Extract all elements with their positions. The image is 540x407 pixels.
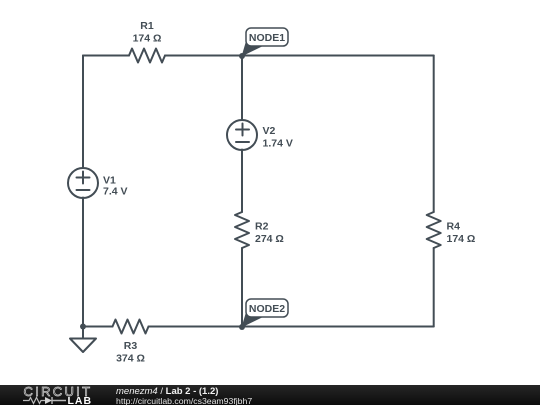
resistor R4: [427, 212, 476, 248]
resistor R3: [113, 320, 149, 365]
node NODE1: [239, 28, 288, 59]
svg-text:NODE1: NODE1: [249, 32, 285, 44]
voltage source V1: [68, 168, 128, 198]
svg-text:1.74 V: 1.74 V: [263, 138, 293, 150]
CircuitLab logo: [24, 384, 104, 399]
logo resistor-diode glyph: [23, 396, 67, 405]
svg-text:R4: R4: [447, 221, 461, 233]
svg-text:R2: R2: [255, 221, 269, 233]
svg-text:274 Ω: 274 Ω: [255, 233, 284, 245]
wire: [241, 248, 243, 327]
ground: [70, 324, 96, 353]
svg-text:174 Ω: 174 Ω: [447, 233, 476, 245]
caption line 1: [116, 386, 218, 397]
svg-text:7.4 V: 7.4 V: [103, 186, 128, 198]
wire: [83, 55, 129, 57]
svg-text:374 Ω: 374 Ω: [116, 353, 145, 365]
wire: [83, 326, 113, 328]
wire: [82, 198, 84, 327]
wire: [433, 248, 435, 327]
resistor R1: [129, 20, 165, 63]
voltage source V2: [227, 120, 293, 150]
wire: [241, 150, 243, 213]
wire: [149, 326, 434, 328]
svg-text:V2: V2: [263, 125, 276, 137]
node NODE2: [239, 299, 288, 330]
caption line 2: [116, 396, 252, 406]
svg-text:NODE2: NODE2: [249, 303, 285, 315]
svg-text:R3: R3: [124, 340, 138, 352]
wire: [82, 56, 84, 169]
footer bar: [0, 385, 540, 405]
resistor R2: [235, 212, 284, 248]
svg-text:R1: R1: [140, 20, 154, 32]
svg-text:174 Ω: 174 Ω: [133, 33, 162, 45]
wire: [241, 56, 243, 121]
wire: [165, 55, 434, 57]
wire: [433, 56, 435, 213]
